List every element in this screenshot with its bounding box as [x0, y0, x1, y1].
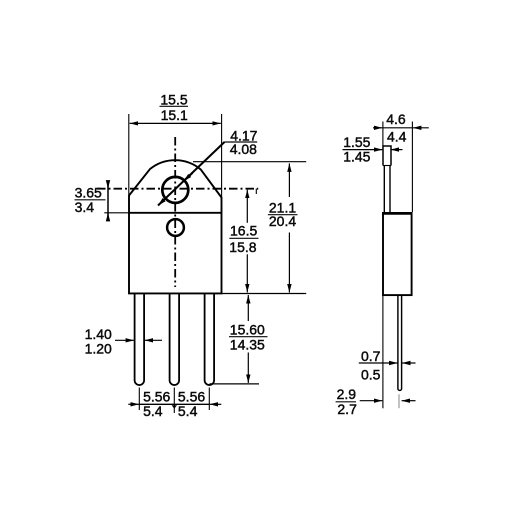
svg-text:2.9: 2.9 — [337, 386, 357, 402]
side view body top thick edge — [382, 212, 412, 215]
middle shared arrow mark under 5.56 dim line — [172, 405, 177, 409]
svg-text:20.4: 20.4 — [269, 213, 296, 229]
svg-text:5.4: 5.4 — [178, 403, 198, 419]
fraction bars — [75, 106, 357, 402]
svg-text:3.4: 3.4 — [75, 199, 95, 215]
svg-text:1.45: 1.45 — [343, 149, 370, 165]
svg-text:5.56: 5.56 — [143, 388, 170, 404]
side view lead — [398, 295, 402, 390]
side view tab step tick — [383, 165, 391, 167]
dim 1.40/1.20 arrows — [115, 339, 134, 341]
side view tab lower part — [383, 166, 385, 214]
bar 15.5/15.1 — [160, 105, 189, 107]
step line left extension — [104, 212, 129, 214]
dim 15.5/15.1 dimension line — [130, 122, 175, 124]
svg-text:1.40: 1.40 — [85, 326, 112, 342]
svg-text:1.55: 1.55 — [343, 134, 370, 150]
side view molded body — [383, 213, 412, 295]
bar 15.60/14.35 — [229, 336, 268, 338]
svg-text:0.7: 0.7 — [361, 348, 381, 364]
svg-text:0.5: 0.5 — [361, 367, 381, 383]
dim 2.9/2.7 dimension line — [360, 400, 383, 402]
horizontal centerline through hole — [97, 188, 258, 190]
lead 1 front view — [135, 293, 145, 385]
bar 4.17/4.08 — [224, 141, 257, 143]
svg-text:2.7: 2.7 — [337, 401, 357, 417]
svg-text:14.35: 14.35 — [230, 337, 265, 353]
tab/body step line front view — [129, 212, 222, 214]
dim 5.56 lead pitch extension lines — [138, 388, 140, 411]
dim 15.5/15.1 extension line right — [221, 114, 223, 198]
dim 16.5/15.8 dimension line — [246, 190, 248, 223]
dim 21.1/20.4 top extension line — [193, 161, 306, 163]
small hole — [167, 219, 184, 236]
side view lead centerline tick — [398, 394, 400, 408]
side view back face extension lower — [382, 295, 384, 408]
svg-text:15.8: 15.8 — [229, 239, 256, 255]
dim 0.7/0.5 leader with bar — [359, 362, 398, 364]
mounting hole — [162, 177, 188, 203]
svg-text:1.20: 1.20 — [85, 341, 112, 357]
dim 15.60/14.35 bottom extension line — [210, 383, 260, 385]
svg-text:4.6: 4.6 — [386, 111, 406, 127]
dim 15.5/15.1 extension line left — [128, 114, 130, 196]
dimension texts — [75, 91, 407, 419]
side view heatsink back face extension upper — [382, 122, 384, 147]
bar 3.65/3.4 — [75, 199, 106, 201]
bar 2.9/2.7 — [336, 401, 356, 403]
dim 4.6/4.4 dimension line — [373, 127, 382, 129]
dim 21.1/20.4 dimension line — [288, 163, 290, 197]
svg-text:15.1: 15.1 — [161, 107, 188, 123]
svg-text:5.4: 5.4 — [143, 403, 163, 419]
side view tab upper part — [383, 146, 391, 166]
dim 3.65/3.4 dimension line — [107, 183, 109, 219]
svg-text:15.60: 15.60 — [230, 322, 265, 338]
dim 4.17/4.08 leader diagonal — [158, 142, 225, 206]
vertical centerline front view — [174, 137, 176, 287]
dim 1.55/1.45 leader with bar — [343, 149, 383, 151]
bar 16.5/15.8 — [229, 237, 258, 239]
svg-text:4.08: 4.08 — [230, 141, 257, 157]
dim 21.1/20.4 bottom extension line — [222, 293, 307, 295]
centerline end tick — [255, 189, 257, 195]
bar 21.1/20.4 — [268, 214, 298, 216]
dim 5.56 dimension line with outside arrows — [128, 403, 139, 405]
svg-text:15.5: 15.5 — [160, 91, 187, 107]
svg-text:16.5: 16.5 — [230, 222, 257, 238]
svg-text:4.4: 4.4 — [387, 129, 407, 145]
lead 2 front view — [170, 293, 180, 385]
svg-text:5.56: 5.56 — [178, 388, 205, 404]
package body front view outline — [129, 160, 222, 293]
side view front face extension — [411, 122, 413, 213]
lead 3 front view — [205, 293, 215, 385]
dim 15.60/14.35 dimension line — [247, 295, 249, 321]
